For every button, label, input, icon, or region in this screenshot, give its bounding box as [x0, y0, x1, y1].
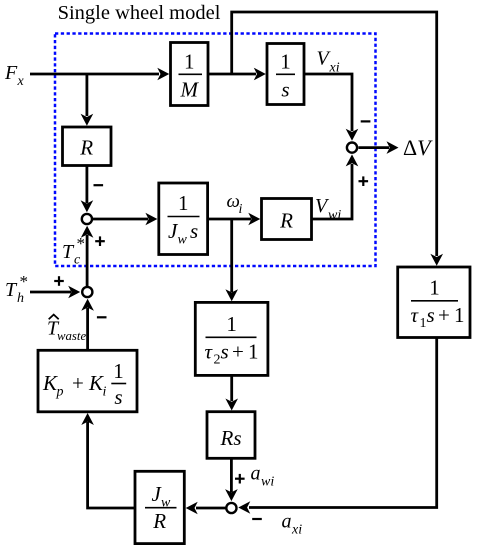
svg-text:1: 1 [280, 50, 291, 74]
svg-text:c: c [74, 253, 81, 268]
svg-text:wi: wi [328, 208, 341, 223]
wire 1/M to 1/s [208, 68, 266, 81]
svg-text:1: 1 [113, 359, 124, 383]
svg-text:1: 1 [248, 340, 259, 364]
svg-text:h: h [17, 291, 24, 306]
block 1/tau2s+1 [195, 302, 268, 375]
svg-text:+: + [72, 371, 84, 395]
block 1/M [171, 43, 209, 106]
label minus at Vxi sum [361, 120, 371, 122]
svg-text:1: 1 [420, 316, 427, 331]
wire Th input [30, 286, 80, 299]
svg-text:s: s [427, 303, 435, 327]
svg-text:1: 1 [226, 312, 237, 336]
svg-text:+: + [438, 303, 450, 327]
svg-text:1: 1 [184, 50, 195, 74]
svg-text:*: * [77, 234, 86, 253]
svg-text:wi: wi [261, 475, 274, 490]
wire Rs to bottom sum [225, 458, 238, 501]
label plus at Vwi sum [359, 176, 369, 186]
wire Th sum to sum1 (Tc*) [81, 226, 94, 287]
svg-text:s: s [114, 385, 122, 409]
label plus below sum1 [95, 236, 105, 246]
wire omega branch down to tau2 [225, 219, 238, 301]
svg-text:R: R [79, 136, 93, 160]
wire Jws to R lower, with omega branch [208, 213, 261, 226]
label minus at Th sum [97, 316, 107, 318]
block Jw/R [135, 471, 184, 543]
dotted model boundary [55, 34, 376, 267]
svg-text:Single wheel model: Single wheel model [58, 2, 221, 24]
svg-text:s: s [190, 219, 198, 243]
svg-text:a: a [251, 463, 261, 485]
label plus at Th sum [54, 276, 64, 286]
svg-text:xi: xi [291, 523, 302, 538]
svg-text:M: M [180, 78, 200, 102]
summing junction bottom [226, 503, 236, 513]
svg-text:i: i [103, 385, 107, 400]
wire Fx input [30, 68, 169, 81]
wire R to sum1 [81, 166, 94, 213]
block 1/s [267, 44, 304, 105]
label minus at bottom sum [252, 518, 262, 520]
wire top feedback to tau1 block [232, 12, 443, 266]
svg-text:R: R [152, 509, 166, 533]
svg-text:waste: waste [57, 329, 86, 343]
wire PI block to Th sum [81, 299, 94, 351]
svg-text:x: x [17, 74, 25, 89]
block Rs [207, 412, 255, 459]
block 1/Jws [159, 183, 208, 255]
wire tau1 output to bottom sum [238, 338, 436, 514]
svg-text:i: i [239, 202, 243, 217]
svg-text:+: + [232, 340, 244, 364]
svg-text:s: s [221, 340, 229, 364]
svg-text:R: R [279, 209, 293, 233]
wire dV output [359, 141, 399, 154]
svg-text:w: w [178, 233, 188, 248]
svg-text:a: a [282, 510, 292, 532]
label plus at bottom sum [235, 474, 245, 484]
summing junction Th [82, 287, 92, 297]
svg-text:Rs: Rs [220, 426, 242, 450]
label minus at sum1 [94, 184, 104, 186]
svg-text:1: 1 [178, 191, 189, 215]
wire Vxi to sum [304, 74, 358, 141]
block R lower [262, 199, 312, 240]
block 1/tau1s+1 [398, 267, 470, 338]
svg-text:1: 1 [429, 276, 440, 300]
svg-text:*: * [20, 272, 29, 291]
summing junction sum1 [82, 214, 92, 224]
svg-text:F: F [4, 62, 18, 84]
wire bottom sum to Jw/R [186, 502, 226, 515]
svg-text:p: p [56, 385, 64, 400]
wire tau2 to Rs [225, 375, 238, 410]
summing junction dV [347, 143, 357, 153]
svg-text:1: 1 [454, 303, 465, 327]
node Fx branch [81, 74, 94, 126]
svg-text:ΔV: ΔV [403, 135, 433, 160]
wire Jw/R to PI block [81, 413, 135, 508]
svg-text:s: s [281, 78, 289, 102]
block R upper [63, 127, 112, 166]
wire Vwi to sum [312, 154, 359, 219]
block Kp+Ki 1/s [38, 350, 137, 412]
wire sum1 to Jw block [93, 213, 158, 226]
svg-text:2: 2 [214, 353, 221, 368]
